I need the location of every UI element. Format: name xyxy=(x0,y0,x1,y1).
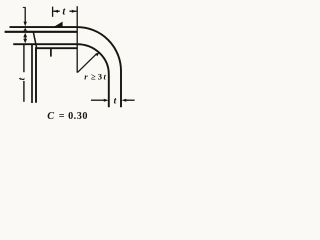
svg-text:r ≥ 3t: r ≥ 3t xyxy=(84,72,106,82)
svg-text:t: t xyxy=(18,77,28,80)
svg-text:C = 0.30: C = 0.30 xyxy=(47,111,88,122)
svg-text:t: t xyxy=(114,97,117,107)
